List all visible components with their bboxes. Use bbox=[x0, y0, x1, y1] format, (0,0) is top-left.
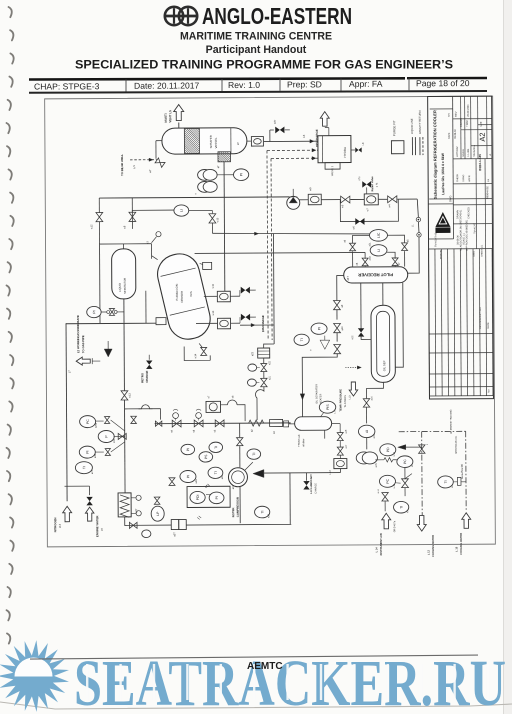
svg-text:REV: REV bbox=[454, 111, 458, 117]
valve w5 bbox=[341, 196, 350, 203]
MM to PC2 flex bbox=[375, 459, 383, 461]
valve a21 bbox=[263, 372, 265, 378]
branch valve w8 bbox=[131, 198, 133, 213]
svg-text:L10: L10 bbox=[348, 395, 351, 400]
dashdot x465 down bbox=[465, 431, 467, 510]
svg-text:PI: PI bbox=[186, 448, 190, 451]
condenser bottom valve bbox=[199, 343, 202, 347]
svg-text:SER.ENG 45-001: SER.ENG 45-001 bbox=[456, 435, 458, 454]
black valve a12 bbox=[358, 328, 364, 336]
instrument air arrow bbox=[382, 513, 391, 529]
spiral binding holes bbox=[7, 7, 14, 644]
svg-text:a14: a14 bbox=[370, 396, 373, 401]
condenser tilted vessel bbox=[153, 250, 214, 343]
oil separator inner shell bbox=[376, 311, 389, 376]
watermark stencil slits bbox=[86, 664, 489, 700]
valve a5 bbox=[402, 243, 408, 251]
svg-text:a27: a27 bbox=[91, 469, 94, 474]
svg-text:Relief Valve: Relief Valve bbox=[370, 176, 374, 191]
valve a10 bbox=[334, 323, 341, 332]
svg-text:FA: FA bbox=[487, 178, 490, 181]
valve a11 bbox=[334, 344, 341, 353]
svg-text:APPROV: APPROV bbox=[456, 146, 459, 157]
valve left of vessel bbox=[156, 140, 162, 142]
riser x289 bbox=[289, 473, 291, 524]
black bowtie retro bbox=[146, 361, 152, 369]
svg-text:L s3: L s3 bbox=[394, 451, 396, 456]
svg-text:TM-ACHT: TM-ACHT bbox=[473, 222, 476, 233]
svg-text:Participant Handout: Participant Handout bbox=[206, 44, 307, 56]
drawing sheet border bbox=[45, 96, 496, 547]
TI s9 valve bbox=[173, 413, 179, 419]
vent stub with black relief valve bbox=[269, 130, 271, 141]
svg-text:a30: a30 bbox=[369, 256, 372, 261]
flex hose on suction bbox=[249, 420, 264, 426]
svg-text:TAKAOKA: TAKAOKA bbox=[473, 145, 476, 157]
vertical x274 to filter branch bbox=[272, 233, 275, 324]
oil separator top pipe bbox=[382, 283, 384, 305]
branch to filter x274 bbox=[240, 324, 274, 326]
line riser to PD bbox=[406, 446, 422, 448]
svg-text:MAST/: MAST/ bbox=[164, 113, 168, 123]
instrument TI a24 bbox=[208, 467, 223, 478]
svg-text:DENSER: DENSER bbox=[180, 291, 184, 303]
svg-text:L13 LUBRICANT: L13 LUBRICANT bbox=[310, 474, 313, 494]
TI s8 valve bbox=[196, 413, 202, 419]
instrument LI pilot bbox=[370, 245, 387, 256]
double box on bottom line bbox=[171, 520, 179, 530]
valve w4 bbox=[388, 196, 397, 203]
svg-text:L s7: L s7 bbox=[329, 470, 332, 475]
svg-text:DATE: DATE bbox=[487, 322, 490, 329]
pipe into coil bbox=[124, 463, 126, 493]
relief valve above CV1 bbox=[362, 181, 371, 187]
valve s5 bbox=[215, 420, 224, 427]
instrument TI stack bbox=[75, 462, 92, 474]
vessel V1 demister hatched section bbox=[184, 128, 199, 153]
svg-text:L6: L6 bbox=[302, 134, 306, 138]
instrument PI stack bbox=[79, 446, 95, 458]
oil gauge instrument PIS bbox=[319, 401, 335, 413]
receiver connections bbox=[352, 251, 354, 266]
svg-text:CHANGE: CHANGE bbox=[145, 370, 149, 382]
svg-text:DRAWN: DRAWN bbox=[460, 118, 463, 127]
svg-text:CHECK: CHECK bbox=[457, 173, 459, 182]
svg-text:LIQUID: LIQUID bbox=[118, 283, 122, 292]
pump P1 bbox=[287, 196, 300, 209]
title block top columns bbox=[428, 96, 493, 249]
discharge line y473 bbox=[263, 472, 340, 474]
nozzle box right of vessel bbox=[247, 140, 251, 142]
svg-text:SIZE: SIZE bbox=[481, 121, 483, 127]
instrument TI bottom bbox=[394, 501, 409, 513]
instrument LIC bbox=[369, 229, 387, 241]
legend purge box bbox=[391, 141, 404, 154]
cooling water dashdot main bbox=[399, 430, 466, 432]
instrument TIA pair lower bbox=[198, 181, 212, 192]
instrument PI near x337 bbox=[311, 323, 327, 334]
svg-text:w11: w11 bbox=[212, 283, 215, 288]
table text row bbox=[34, 78, 470, 92]
bypass loop with black valve bbox=[340, 199, 398, 221]
air dryer box bbox=[318, 136, 351, 163]
line y233 to LIC bbox=[212, 232, 369, 234]
svg-text:aT: aT bbox=[236, 142, 240, 145]
cooling water down arrow bbox=[417, 516, 426, 532]
svg-text:a24: a24 bbox=[221, 475, 224, 480]
valve on compressor suction bbox=[237, 438, 243, 446]
svg-text:PI: PI bbox=[92, 310, 96, 313]
silencer box bbox=[270, 419, 283, 426]
svg-text:ROTEK: ROTEK bbox=[231, 507, 235, 517]
watermark sun bbox=[0, 640, 69, 712]
svg-text:VESSEL: VESSEL bbox=[214, 137, 218, 148]
hatched strainer under vessel bbox=[218, 152, 231, 162]
svg-text:Date: 20.11.2017: Date: 20.11.2017 bbox=[134, 80, 200, 90]
svg-text:Prep: SD: Prep: SD bbox=[287, 79, 322, 89]
svg-text:1:1-004: 1:1-004 bbox=[467, 148, 470, 157]
svg-text:PC: PC bbox=[403, 459, 407, 464]
dotted vent line bbox=[345, 366, 360, 368]
pump discharge piping bbox=[221, 404, 228, 406]
dashed suction lines into dryer bbox=[267, 149, 318, 151]
instrument PC2 bbox=[397, 456, 413, 468]
valve a9 bbox=[333, 300, 340, 309]
title block frame bbox=[428, 96, 494, 399]
svg-text:PI: PI bbox=[239, 173, 243, 176]
valve a8 bbox=[362, 258, 368, 266]
instrument AI bbox=[358, 425, 374, 437]
svg-text:PILOT RECEIVER: PILOT RECEIVER bbox=[358, 272, 393, 277]
svg-text:AI: AI bbox=[365, 430, 369, 433]
svg-text:SEPARATOR: SEPARATOR bbox=[123, 278, 127, 294]
condenser shell drop x146 bbox=[145, 291, 147, 323]
receiver top piping bbox=[352, 235, 369, 243]
svg-text:a3T: a3T bbox=[173, 532, 176, 537]
instrument PC3 bbox=[379, 475, 395, 487]
valve a14 bbox=[363, 399, 369, 407]
pipe into filter bbox=[264, 344, 275, 348]
svg-text:DISCHARGE: DISCHARGE bbox=[261, 315, 265, 332]
control valve CV2 bbox=[204, 295, 217, 297]
svg-text:CHARGE: CHARGE bbox=[314, 483, 317, 494]
svg-text:a21: a21 bbox=[268, 375, 271, 380]
svg-text:OIL SEPARATOR: OIL SEPARATOR bbox=[315, 384, 318, 404]
hx coil box bbox=[118, 493, 131, 517]
svg-text:Goa-Rev.00: Goa-Rev.00 bbox=[460, 464, 464, 479]
header drop x418 with drain points bbox=[417, 199, 418, 217]
svg-text:TM-ACHT 45: TM-ACHT 45 bbox=[434, 232, 437, 247]
pilot receiver vessel bbox=[344, 267, 408, 283]
svg-text:L 15: L 15 bbox=[455, 546, 458, 552]
svg-text:L2 WORKING/CONDENSATE: L2 WORKING/CONDENSATE bbox=[76, 315, 80, 353]
svg-text:TI: TI bbox=[444, 480, 448, 483]
svg-text:ANGLO-EASTERN: ANGLO-EASTERN bbox=[202, 3, 352, 29]
svg-text:GRAVITY RETURN: GRAVITY RETURN bbox=[418, 111, 422, 135]
svg-text:TI: TI bbox=[260, 510, 264, 513]
TI right with thermowell bbox=[438, 476, 454, 488]
instrument PC stack bbox=[80, 416, 96, 428]
vessel V1 sprayer horizontal capsule bbox=[162, 128, 247, 155]
title block AE logo pyramid bbox=[435, 212, 450, 233]
legend line symbols bbox=[411, 137, 413, 155]
header table bottom border bbox=[29, 90, 487, 94]
valve as1 bbox=[382, 493, 388, 501]
svg-text:LIQUID LINE: LIQUID LINE bbox=[410, 118, 414, 134]
svg-text:LI: LI bbox=[377, 249, 381, 252]
stack valves bbox=[104, 417, 109, 424]
mast vent arrow bbox=[174, 105, 184, 121]
gauge cluster x156 bbox=[154, 497, 160, 504]
revision grid columns bbox=[429, 249, 494, 396]
svg-text:SPECIALIZED TRAINING PROGRAMME: SPECIALIZED TRAINING PROGRAMME FOR GAS E… bbox=[75, 59, 453, 72]
svg-text:a12: a12 bbox=[351, 335, 354, 340]
condenser top connect bbox=[152, 256, 158, 260]
svg-text:SH: SH bbox=[448, 113, 451, 117]
svg-text:w12: w12 bbox=[90, 224, 93, 229]
instrument row upper PI bbox=[181, 444, 195, 454]
svg-text:a16: a16 bbox=[373, 434, 376, 439]
instrument TI a26 bbox=[255, 506, 270, 518]
svg-text:AE-MARINE TRAINING: AE-MARINE TRAINING bbox=[450, 409, 453, 434]
header table cell dividers bbox=[125, 80, 127, 92]
valves a18 a17 above heater bbox=[337, 433, 343, 441]
dryer side angle valve bbox=[351, 149, 355, 151]
separator bottom pipe bbox=[123, 299, 125, 323]
svg-text:PI: PI bbox=[86, 450, 90, 453]
watermark sun core white top bbox=[15, 658, 53, 677]
svg-text:COOLING WATER: COOLING WATER bbox=[431, 535, 435, 557]
svg-text:L 12: L 12 bbox=[427, 549, 430, 555]
svg-text:w14: w14 bbox=[194, 353, 197, 358]
svg-text:20-09-2004: 20-09-2004 bbox=[467, 104, 470, 117]
svg-text:LauPas Gls 1604 4 x 6kW: LauPas Gls 1604 4 x 6kW bbox=[441, 152, 445, 195]
instrument TIA pair upper bbox=[198, 169, 212, 180]
svg-text:ENGINE WATER: ENGINE WATER bbox=[95, 516, 99, 537]
scan right edge shadow bbox=[503, 0, 512, 714]
svg-text:LI: LI bbox=[180, 209, 184, 212]
svg-text:VENT L5: VENT L5 bbox=[168, 110, 172, 123]
valve w13 bbox=[123, 323, 125, 391]
black arrow into PD bbox=[398, 445, 406, 450]
branch valve w12 bbox=[98, 198, 100, 213]
svg-text:DRAWN: DRAWN bbox=[456, 210, 459, 219]
svg-text:PC: PC bbox=[386, 478, 390, 483]
svg-text:a23: a23 bbox=[251, 351, 254, 356]
main pipe header y197 bbox=[99, 197, 289, 198]
nitrogen tee line bbox=[65, 485, 90, 487]
svg-text:a4T: a4T bbox=[346, 276, 350, 281]
oil gauge capsule bbox=[295, 417, 332, 431]
instrument MM bbox=[356, 452, 371, 464]
instrument P stack bbox=[98, 430, 114, 442]
svg-text:PS: PS bbox=[204, 454, 208, 459]
liquid separator vessel bbox=[112, 249, 136, 299]
svg-text:a10: a10 bbox=[341, 326, 344, 331]
svg-text:PI: PI bbox=[186, 475, 190, 478]
svg-text:NITROGEN: NITROGEN bbox=[53, 518, 57, 533]
compressor circle bbox=[228, 468, 247, 487]
compressor discharge arrow bbox=[253, 470, 264, 478]
svg-text:TI: TI bbox=[300, 338, 304, 341]
pipe oil gauge to heater drop bbox=[332, 423, 340, 425]
svg-text:GRID 42Ta: GRID 42Ta bbox=[394, 520, 396, 532]
svg-text:APP-ROV DOC 45-9933-001: APP-ROV DOC 45-9933-001 bbox=[465, 219, 468, 251]
svg-text:TEMP. PRESSURE: TEMP. PRESSURE bbox=[338, 389, 342, 412]
valve w15 on x213 bbox=[211, 210, 213, 213]
svg-text:TI: TI bbox=[214, 471, 218, 474]
oil gauge stub bbox=[289, 423, 295, 425]
svg-text:w9: w9 bbox=[308, 187, 312, 191]
valve on x421 bbox=[419, 445, 425, 453]
svg-text:L7: L7 bbox=[67, 370, 71, 374]
control valve CV3 bbox=[196, 322, 217, 324]
svg-text:MARITIME TRAINING CENTRE: MARITIME TRAINING CENTRE bbox=[180, 31, 332, 43]
valve a6 bbox=[350, 243, 356, 251]
header table top border bbox=[29, 77, 487, 81]
bottom line to riser bbox=[186, 523, 291, 526]
svg-text:L s2: L s2 bbox=[394, 483, 396, 488]
svg-text:VALVE 1: VALVE 1 bbox=[330, 165, 334, 176]
svg-text:a15: a15 bbox=[375, 463, 378, 468]
svg-text:OIL SEP: OIL SEP bbox=[382, 360, 386, 371]
three way valve x404 bbox=[402, 479, 409, 488]
gauge line y209 with LI bbox=[132, 210, 174, 222]
heater box bbox=[334, 459, 347, 469]
separator feed line y243 bbox=[100, 243, 152, 245]
PI with valve at separator bbox=[87, 306, 101, 317]
svg-text:FROM Lub: FROM Lub bbox=[298, 434, 301, 447]
svg-text:HYDRA: HYDRA bbox=[343, 147, 347, 158]
loop bridge on return bbox=[139, 405, 153, 409]
svg-text:wT: wT bbox=[148, 169, 152, 173]
stack three way bbox=[114, 435, 125, 437]
anglo-eastern logo bbox=[165, 7, 197, 25]
valve before PI a25 bbox=[169, 478, 175, 486]
svg-text:L/1: L/1 bbox=[132, 165, 136, 169]
svg-text:CHAP: STPGE-3: CHAP: STPGE-3 bbox=[34, 81, 100, 91]
svg-text:a s1: a s1 bbox=[378, 488, 380, 493]
svg-text:PD: PD bbox=[386, 447, 390, 452]
svg-text:Appr: FA: Appr: FA bbox=[349, 79, 383, 89]
svg-text:PI: PI bbox=[215, 496, 219, 499]
valve a22 bbox=[263, 358, 265, 363]
instrument PI a25 bbox=[180, 470, 196, 482]
instrument PI top bbox=[217, 174, 234, 176]
svg-text:A2: A2 bbox=[478, 132, 487, 141]
svg-text:a26: a26 bbox=[267, 513, 270, 518]
instrument row upper TI2 bbox=[247, 449, 261, 459]
vent valvelet near separator bbox=[156, 232, 161, 237]
svg-text:a25: a25 bbox=[195, 479, 198, 484]
receiver right downline x403 bbox=[395, 283, 404, 368]
oil separator bottom pipe bbox=[366, 382, 383, 388]
valve on return drop bbox=[131, 416, 137, 423]
valve at suction start bbox=[155, 421, 161, 426]
triangle drain marker bbox=[320, 340, 330, 349]
instrument PD bbox=[380, 444, 396, 456]
svg-text:a29s: a29s bbox=[95, 422, 98, 428]
oil gauge bottom stub bbox=[324, 430, 326, 438]
instrument row upper PSL bbox=[199, 452, 213, 462]
svg-text:w10: w10 bbox=[212, 310, 215, 315]
valve below coil bbox=[129, 522, 137, 528]
svg-text:SHEET 1/1: SHEET 1/1 bbox=[481, 244, 484, 257]
svg-text:PIS: PIS bbox=[326, 404, 330, 410]
svg-text:LIC: LIC bbox=[377, 232, 381, 238]
coil nipples bbox=[136, 495, 141, 500]
svg-text:DATE: DATE bbox=[448, 132, 451, 139]
left vent arrow bbox=[76, 357, 90, 365]
title block text schematic diagram bbox=[432, 110, 445, 199]
svg-text:PC: PC bbox=[86, 419, 90, 424]
dashdot riser x421 bbox=[421, 432, 424, 515]
line y322 to left riser bbox=[66, 322, 156, 325]
scan bottom edge bbox=[0, 702, 512, 709]
svg-text:a28: a28 bbox=[94, 453, 97, 458]
svg-text:PDI: PDI bbox=[196, 495, 200, 501]
compressor to bottom line bbox=[239, 487, 241, 523]
receiver mid drop x361 bbox=[360, 283, 362, 328]
to bilge well dashed line bbox=[130, 159, 157, 161]
instrument box on header bbox=[299, 199, 308, 201]
svg-text:99564-002: 99564-002 bbox=[485, 186, 489, 199]
svg-text:Schematic diagram REFRIGERATIO: Schematic diagram REFRIGERATION COOLER bbox=[432, 110, 438, 199]
line y253 liquid main bbox=[195, 252, 365, 253]
svg-text:DWG: DWG bbox=[448, 196, 452, 202]
svg-text:a31: a31 bbox=[369, 242, 372, 247]
svg-text:6sTs: 6sTs bbox=[189, 290, 193, 296]
return line y408 bbox=[125, 408, 161, 410]
svg-text:SCALE: SCALE bbox=[462, 149, 465, 157]
svg-text:TI: TI bbox=[399, 506, 403, 509]
coil bottom piping bbox=[125, 517, 172, 526]
instrument row upper TI bbox=[209, 442, 223, 452]
lubricant charge stub bbox=[305, 473, 307, 481]
svg-text:L 14: L 14 bbox=[375, 547, 378, 553]
svg-text:w13: w13 bbox=[128, 393, 131, 398]
svg-text:oil drier: oil drier bbox=[302, 438, 305, 446]
svg-text:L13: L13 bbox=[58, 523, 62, 528]
svg-text:PI: PI bbox=[317, 327, 321, 330]
svg-text:TO GAS PIPE: TO GAS PIPE bbox=[81, 335, 85, 353]
svg-text:B5B4-1-E45: B5B4-1-E45 bbox=[478, 154, 482, 171]
vessel V1 inner line and label bbox=[230, 128, 232, 153]
svg-text:T.MAK: T.MAK bbox=[466, 120, 469, 127]
svg-text:AEMTC: AEMTC bbox=[247, 661, 283, 672]
nitrogen arrow bbox=[63, 506, 72, 522]
svg-text:TI: TI bbox=[252, 453, 256, 456]
svg-text:1 %: 1 % bbox=[375, 182, 379, 187]
black valve B2 bbox=[241, 287, 250, 294]
receiver left drop bbox=[337, 276, 344, 301]
svg-text:CHECKED: CHECKED bbox=[467, 207, 470, 219]
svg-text:To ATMOS: To ATMOS bbox=[343, 395, 347, 408]
svg-text:Page 18 of 20: Page 18 of 20 bbox=[416, 78, 470, 88]
control valve CV1 bbox=[364, 194, 378, 205]
svg-text:Rev: 1.0: Rev: 1.0 bbox=[228, 80, 260, 90]
main suction line y423 bbox=[155, 422, 291, 425]
drain instrument small bbox=[142, 530, 151, 538]
temp pressure vent arrow bbox=[349, 382, 358, 396]
svg-text:RETRO: RETRO bbox=[140, 372, 144, 383]
pump box M bbox=[206, 401, 221, 412]
svg-text:COMPRESSOR: COMPRESSOR bbox=[236, 497, 240, 517]
left riser x100 to y322 bbox=[99, 243, 101, 323]
svg-text:TI: TI bbox=[214, 446, 218, 449]
valve a7 bbox=[392, 258, 398, 266]
svg-text:wTr: wTr bbox=[273, 120, 277, 124]
